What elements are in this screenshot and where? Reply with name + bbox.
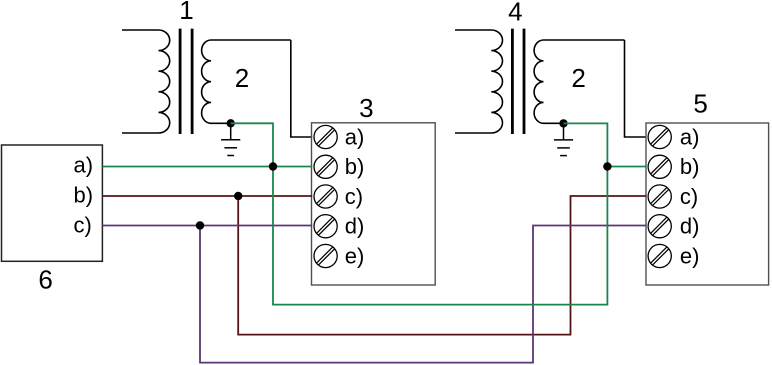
- svg-text:a): a): [345, 124, 365, 149]
- svg-text:4: 4: [508, 0, 522, 26]
- svg-text:a): a): [74, 153, 94, 178]
- purple wire: junction down-across-up to block 5 d: [200, 226, 647, 363]
- block 5 screw terminal d: [648, 215, 671, 238]
- purple wire: box 6 c to block 3 d: [102, 225, 312, 227]
- transformer T4 primary winding: [455, 30, 503, 133]
- block 3 screw terminal c: [314, 185, 337, 208]
- svg-text:c): c): [680, 184, 698, 209]
- green wire: T1 ground node down-across-up to T4 ground node: [231, 123, 608, 304]
- svg-text:3: 3: [359, 93, 373, 123]
- svg-text:b): b): [74, 183, 94, 208]
- block 3 screw terminal e: [314, 244, 337, 267]
- ground symbol T4: [554, 123, 573, 155]
- box 6: [2, 145, 103, 261]
- svg-text:5: 5: [693, 89, 707, 119]
- block 5 screw terminal e: [648, 244, 671, 267]
- junction dot green right: [603, 162, 611, 170]
- transformer T1 primary winding: [122, 30, 170, 133]
- green wire: box 6 a to block 3 b: [102, 166, 312, 168]
- junction dot T1 secondary bottom: [227, 119, 235, 127]
- block 3 screw terminal b: [314, 155, 337, 178]
- transformer T1 core line 1: [179, 29, 182, 134]
- dark red wire: junction down-across-up to block 5 c: [238, 196, 646, 335]
- junction dot T4 secondary bottom: [559, 119, 567, 127]
- ground symbol T1: [221, 123, 240, 155]
- svg-text:e): e): [680, 243, 700, 268]
- svg-text:d): d): [680, 214, 700, 239]
- transformer T1 secondary winding: [202, 40, 291, 123]
- svg-text:2: 2: [571, 63, 585, 93]
- block 5 screw terminal a: [648, 125, 671, 148]
- wire T4 secondary top to block 5 terminal a: [625, 40, 647, 137]
- svg-text:c): c): [74, 213, 92, 238]
- svg-text:c): c): [345, 184, 363, 209]
- junction dot purple: [196, 221, 204, 229]
- svg-text:1: 1: [179, 0, 193, 25]
- junction dot green left: [269, 162, 277, 170]
- wire T1 secondary top to block 3 terminal a: [291, 40, 312, 137]
- green wire: junction to block 5 b: [607, 166, 646, 168]
- transformer T4 secondary winding: [534, 40, 624, 123]
- transformer T4 core line 1: [511, 29, 514, 134]
- svg-text:d): d): [345, 214, 365, 239]
- svg-text:a): a): [680, 124, 700, 149]
- svg-text:e): e): [345, 243, 365, 268]
- terminal block 5: [646, 123, 769, 285]
- block 3 screw terminal d: [314, 215, 337, 238]
- block 3 screw terminal a: [314, 125, 337, 148]
- svg-text:b): b): [345, 154, 365, 179]
- transformer T4 core line 2: [523, 29, 526, 134]
- svg-text:6: 6: [38, 265, 52, 295]
- svg-text:2: 2: [235, 63, 249, 93]
- dark red wire: box 6 b to block 3 c: [102, 195, 312, 197]
- block 5 screw terminal b: [648, 155, 671, 178]
- junction dot dark red: [234, 192, 242, 200]
- transformer T1 core line 2: [191, 29, 194, 134]
- svg-text:b): b): [680, 154, 700, 179]
- terminal block 3: [312, 123, 436, 285]
- block 5 screw terminal c: [648, 185, 671, 208]
